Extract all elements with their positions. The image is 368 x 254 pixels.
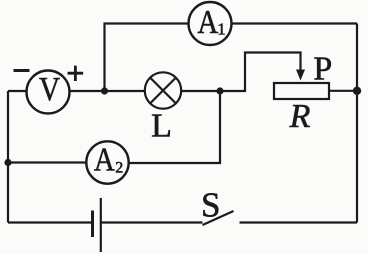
svg-text:R: R [289, 98, 311, 135]
svg-text:2: 2 [115, 160, 123, 177]
svg-text:A: A [94, 140, 115, 178]
svg-text:S: S [201, 186, 220, 225]
svg-text:1: 1 [217, 20, 226, 39]
svg-text:A: A [197, 3, 218, 41]
svg-text:L: L [151, 108, 172, 145]
svg-text:V: V [39, 70, 60, 108]
svg-text:P: P [313, 51, 332, 88]
